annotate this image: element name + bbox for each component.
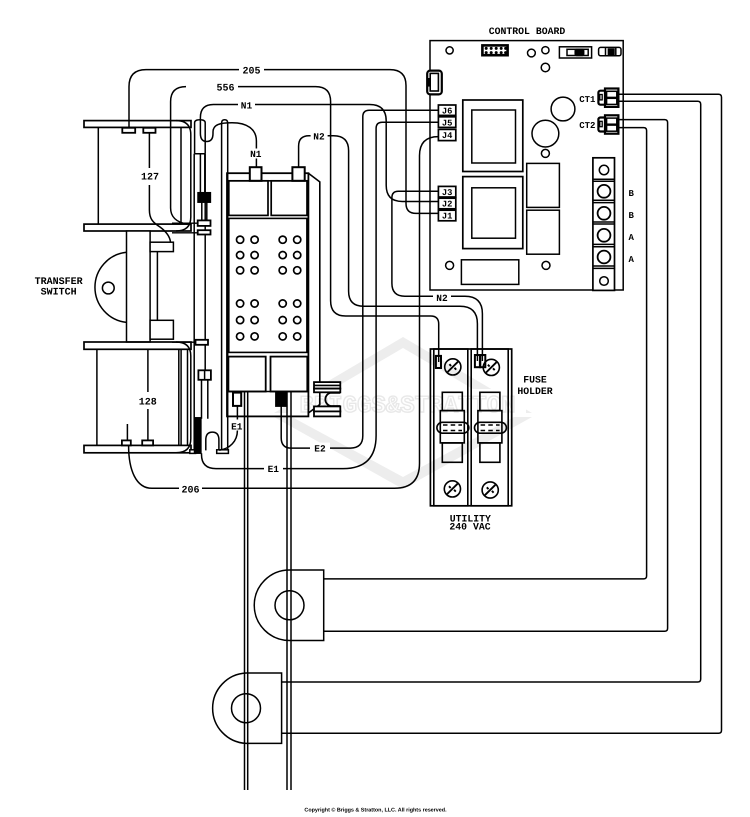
armature semicircle <box>95 252 127 322</box>
screw bottom right <box>482 482 498 498</box>
fuse body left <box>440 411 464 443</box>
wire CT1 a <box>282 94 722 733</box>
fuse module left <box>434 349 468 506</box>
svg-text:CT2: CT2 <box>579 121 595 131</box>
svg-text:FUSE: FUSE <box>523 375 547 386</box>
label 556 <box>213 81 238 92</box>
svg-text:A: A <box>628 255 634 265</box>
relay K1 <box>463 100 523 172</box>
post P2 rails <box>194 154 205 450</box>
svg-text:A: A <box>628 233 634 243</box>
hole top-left <box>446 47 453 54</box>
svg-text:240 VAC: 240 VAC <box>449 521 490 532</box>
wire CT2 a <box>324 120 668 632</box>
FUSE HOLDER <box>430 349 511 506</box>
label N1 top <box>238 100 255 111</box>
CT upper hole <box>275 591 304 620</box>
svg-text:N2: N2 <box>313 131 325 142</box>
left edge connector J-plug <box>427 71 442 95</box>
svg-text:E2: E2 <box>314 444 326 455</box>
connector J4 <box>438 129 455 140</box>
wire E1 stud to hook <box>219 406 237 450</box>
relay K2 <box>463 177 523 249</box>
wire CT1 b <box>282 101 701 682</box>
coil 127 body <box>97 127 99 224</box>
svg-text:J4: J4 <box>442 131 453 141</box>
label N2 bottom <box>434 292 451 303</box>
wire CT2 b <box>324 128 647 579</box>
slide switch <box>559 47 591 58</box>
svg-text:J2: J2 <box>442 200 453 210</box>
CURRENT TRANSFORMERS <box>213 570 324 743</box>
svg-text:205: 205 <box>242 67 260 78</box>
svg-text:B: B <box>628 211 634 221</box>
coil 127 terminal tab 1 <box>122 128 135 133</box>
svg-text:HOLDER: HOLDER <box>517 386 552 397</box>
block top band <box>227 180 308 182</box>
post P1 <box>222 120 228 450</box>
fuse clip upper left <box>442 392 462 410</box>
block 3D top diagonal <box>308 173 319 413</box>
fuse feed wires into terminals <box>439 357 483 362</box>
556 connector plug (black) <box>198 193 210 203</box>
wire J6-E2 <box>281 110 438 448</box>
coil 128 right cap <box>176 342 191 453</box>
screw top right <box>483 359 499 375</box>
svg-text:556: 556 <box>216 84 234 95</box>
fuse clip lower right <box>480 443 500 462</box>
CT lower hole <box>232 694 261 723</box>
stud N2 <box>292 167 304 181</box>
svg-text:206: 206 <box>181 485 199 496</box>
connector J2 <box>438 198 455 209</box>
connector J1 <box>438 210 455 221</box>
coil 127 right cap <box>176 121 191 231</box>
plunger armature <box>127 231 151 342</box>
armature step column <box>156 252 158 321</box>
lug right <box>271 357 308 392</box>
conductor pair E1 <box>245 392 248 790</box>
svg-text:128: 128 <box>139 398 157 409</box>
556 connector wires mid <box>202 202 207 220</box>
coil 128 cap inner edge <box>179 349 188 445</box>
stud N1 <box>250 167 262 181</box>
jumper component <box>599 47 621 55</box>
svg-text:Copyright © Briggs & Stratton,: Copyright © Briggs & Stratton, LLC. All … <box>304 808 447 814</box>
header connector <box>482 45 507 55</box>
post P2 foot <box>190 450 196 454</box>
fuse clip upper right <box>480 392 500 410</box>
TERMINAL BLOCK <box>227 167 340 416</box>
wire J3-N2 bottom to fuse <box>392 191 483 357</box>
board outline <box>430 41 623 290</box>
small circle below <box>541 149 549 157</box>
block inner rect <box>229 218 307 352</box>
fuse body right <box>478 411 502 443</box>
screw top left <box>445 359 461 375</box>
component rect mid lower <box>527 210 560 254</box>
coil 128 terminal tab 1 <box>122 440 131 445</box>
WATERMARK <box>274 337 532 489</box>
terminal strip <box>593 158 615 291</box>
coil 127 top flange <box>84 121 191 128</box>
armature pivot hole <box>102 282 114 294</box>
wire 556 : coil127 frame to fuse left pole <box>171 87 439 357</box>
label N2 top <box>311 130 328 141</box>
svg-text:E1: E1 <box>231 422 243 433</box>
upper module left <box>229 181 268 216</box>
small circles top <box>528 49 536 57</box>
wire terminal left module <box>436 356 441 368</box>
svg-text:J3: J3 <box>442 188 453 198</box>
bracket F bar4 <box>314 411 340 416</box>
bracket F C-notch <box>325 393 340 406</box>
fuse capsule left <box>437 422 469 433</box>
fuse capsule right <box>475 422 507 433</box>
screw bottom left <box>444 481 460 497</box>
bottom rect component <box>461 260 518 285</box>
post P1 foot <box>217 450 229 454</box>
bracket F bar1 <box>314 382 340 389</box>
block outer body <box>227 173 308 416</box>
connector J3 <box>438 186 455 197</box>
coil 128 body <box>96 349 98 445</box>
556 connector wires upper <box>200 154 204 193</box>
connector J6 <box>438 105 455 115</box>
wire N2 top : stud to fuse right pole <box>299 136 478 357</box>
coil 128 bottom flange <box>84 445 191 452</box>
upper module right <box>271 181 307 216</box>
svg-text:N2: N2 <box>436 293 448 304</box>
wire 127 from tab2 down through coil <box>149 133 170 242</box>
wire J5-E1 <box>202 122 439 468</box>
CONTROL BOARD <box>427 41 623 291</box>
stud E2 under right lug (dark) <box>276 393 286 406</box>
big circle 1 <box>551 97 575 121</box>
svg-text:J6: J6 <box>442 106 453 116</box>
svg-text:CONTROL BOARD: CONTROL BOARD <box>489 26 566 37</box>
E1 connector plug <box>198 370 211 380</box>
E1 connector wires <box>202 380 208 419</box>
big circle 2 <box>532 120 559 147</box>
label E2 <box>310 443 330 454</box>
armature step lower <box>150 320 173 339</box>
svg-text:N1: N1 <box>250 149 262 160</box>
CT2 connector <box>598 115 618 133</box>
556 connector tab B <box>198 230 211 234</box>
wire 205 : coil127 tab1 to J1 <box>129 70 438 214</box>
svg-text:SWITCH: SWITCH <box>41 288 77 299</box>
coil 127 terminal tab 2 <box>143 128 155 133</box>
coil 127 bottom flange <box>84 224 191 231</box>
fuse clip lower left <box>442 443 462 462</box>
coil 127 cap inner edge <box>180 127 182 224</box>
bracket F bar3 <box>314 406 340 411</box>
component rect mid upper <box>527 163 560 207</box>
wire N1 rail and hook <box>200 105 438 202</box>
coil 128 top flange <box>84 342 191 349</box>
svg-text:B: B <box>628 189 634 199</box>
CT upper block <box>254 570 323 641</box>
tab wires to coils <box>172 223 198 342</box>
svg-text:127: 127 <box>141 173 159 184</box>
coil 128 terminal tab 2 <box>142 440 153 445</box>
svg-text:N1: N1 <box>241 101 253 112</box>
armature step upper <box>150 242 173 251</box>
holder outer <box>430 349 511 506</box>
wire terminals right module <box>475 355 480 367</box>
svg-text:J5: J5 <box>442 118 453 128</box>
terminal circles <box>237 236 301 340</box>
connector J5 <box>438 117 455 128</box>
svg-text:J1: J1 <box>442 212 453 222</box>
label 205 <box>239 64 264 75</box>
hole bottom-mid <box>542 261 550 269</box>
CT lower block <box>213 673 282 743</box>
label E1 wire <box>264 462 283 473</box>
hole bottom-left <box>446 261 454 269</box>
E1 hook <box>206 432 219 450</box>
conductor pair E2 <box>287 392 291 790</box>
post P2 sleeve <box>195 120 206 154</box>
svg-text:E1: E1 <box>268 464 280 475</box>
CT1 connector <box>598 89 618 107</box>
bracket F bar2 <box>314 389 340 393</box>
lug left <box>228 357 265 392</box>
svg-text:CT1: CT1 <box>579 95 596 105</box>
label 206 <box>179 483 202 494</box>
wire J4-206 <box>129 137 439 489</box>
556 connector tab A <box>198 220 211 226</box>
TRANSFER SWITCH LEFT ASSEMBLY <box>84 120 228 454</box>
lower flange tab <box>196 340 209 345</box>
E1 black bar <box>195 418 201 453</box>
stud E1 under left lug <box>233 393 241 406</box>
fuse module right <box>471 349 508 506</box>
wire 128 inside coil <box>127 349 147 440</box>
svg-text:TRANSFER: TRANSFER <box>35 277 83 288</box>
